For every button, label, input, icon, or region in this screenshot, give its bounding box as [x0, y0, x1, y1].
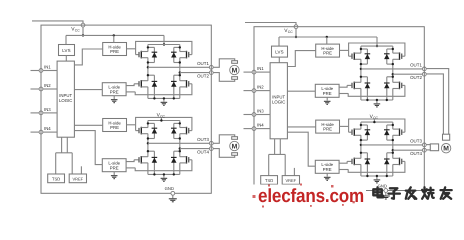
svg-text:CC: CC	[75, 28, 80, 32]
svg-text:OUT3: OUT3	[197, 137, 209, 142]
svg-text:PRE: PRE	[110, 49, 119, 54]
svg-text:IN4: IN4	[44, 126, 51, 131]
svg-text:GND: GND	[378, 183, 387, 188]
svg-text:PRE: PRE	[110, 89, 119, 94]
svg-text:IN3: IN3	[44, 107, 51, 112]
svg-text:IN2: IN2	[44, 83, 51, 88]
svg-text:LVS: LVS	[62, 48, 71, 53]
svg-text:M: M	[232, 67, 238, 74]
svg-text:OUT2: OUT2	[197, 73, 209, 78]
svg-text:elecfans.com: elecfans.com	[258, 186, 364, 207]
svg-text:OUT4: OUT4	[197, 149, 209, 154]
svg-text:IN1: IN1	[44, 65, 51, 70]
svg-text:OUT1: OUT1	[197, 61, 209, 66]
svg-text:IN4: IN4	[257, 123, 264, 128]
svg-text:PRE: PRE	[110, 165, 119, 170]
svg-text:GND: GND	[165, 186, 174, 191]
svg-text:M: M	[443, 146, 449, 153]
svg-text:LOGIC: LOGIC	[59, 98, 72, 103]
svg-text:M: M	[232, 143, 238, 150]
svg-text:VREF: VREF	[72, 176, 83, 181]
svg-text:TSD: TSD	[52, 176, 60, 181]
svg-text:PRE: PRE	[110, 125, 119, 130]
